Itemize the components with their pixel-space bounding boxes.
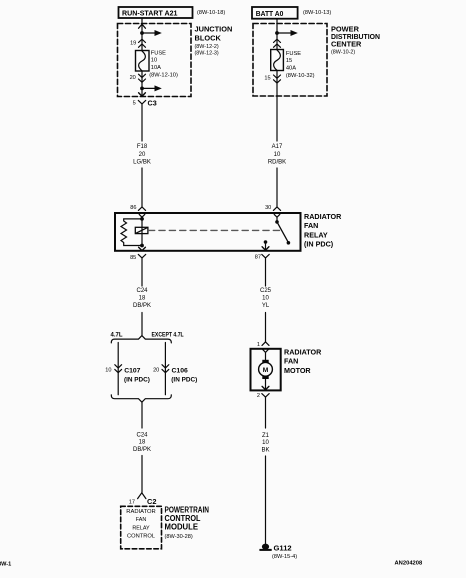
node coil top dot [140, 217, 144, 221]
connector chevrons C107 [115, 365, 122, 373]
connector C3 exit symbol [138, 93, 145, 104]
svg-text:(8W-12-3): (8W-12-3) [195, 51, 219, 57]
switch contact 30 [275, 220, 279, 224]
svg-text:G112: G112 [274, 543, 292, 552]
connector chevrons pin 19 [139, 39, 146, 47]
connector chevrons pin 15 [274, 75, 281, 83]
label RADIATOR FAN RELAY CONTROL (inside PCM) [126, 509, 156, 540]
splice brace top [111, 336, 171, 343]
svg-text:BK: BK [261, 447, 269, 453]
motor exit pin 2 symbol [262, 386, 269, 397]
svg-text:BLOCK: BLOCK [195, 34, 222, 43]
wire label F18 20 LG/BK [133, 144, 151, 166]
svg-text:FAN: FAN [304, 221, 318, 230]
wire label A17 10 RD/BK [268, 144, 286, 166]
svg-text:20: 20 [139, 152, 146, 158]
junction block J1 (dashed box) [118, 24, 192, 97]
connector entry pin 30 [273, 207, 280, 217]
wire to PCM [141, 456, 143, 493]
connector chevrons above PDC fuse [274, 39, 281, 47]
svg-text:RD/BK: RD/BK [268, 160, 286, 166]
ground G112 [259, 544, 271, 551]
svg-text:C3: C3 [148, 99, 157, 108]
svg-text:18: 18 [139, 440, 146, 446]
svg-text:4.7L: 4.7L [111, 333, 123, 339]
wire label Z1 10 BK [261, 433, 269, 453]
wire label C25 10 YL [260, 288, 272, 309]
svg-text:DB/PK: DB/PK [133, 447, 151, 453]
svg-text:MOTOR: MOTOR [284, 366, 311, 375]
label FUSE 15 40A (8W-10-32) [286, 51, 315, 79]
svg-text:8W-1: 8W-1 [0, 562, 11, 568]
pin 85 exit symbol [138, 247, 145, 258]
wire relay 85 down [141, 258, 143, 286]
svg-text:A17: A17 [272, 144, 283, 150]
svg-text:RADIATOR: RADIATOR [284, 347, 322, 356]
svg-text:DB/PK: DB/PK [133, 303, 151, 309]
svg-text:87: 87 [255, 255, 261, 261]
power distribution center (dashed box) [253, 24, 327, 97]
svg-text:(8W-12-10): (8W-12-10) [149, 72, 178, 78]
wire branch left (4.7L) [117, 343, 119, 395]
resistor (relay coil shunt) [121, 219, 142, 246]
svg-text:10: 10 [274, 152, 281, 158]
wire pin 30 stub [276, 217, 278, 222]
svg-text:FAN: FAN [284, 357, 298, 366]
svg-text:40A: 40A [286, 65, 296, 71]
splice brace bottom [111, 395, 171, 402]
connector label C106 (IN PDC) [171, 367, 197, 383]
svg-text:RELAY: RELAY [132, 525, 150, 531]
svg-text:10: 10 [151, 58, 157, 64]
label RADIATOR FAN MOTOR [284, 347, 322, 375]
wire label C24 18 DB/PK [133, 288, 151, 309]
svg-text:10: 10 [105, 368, 111, 374]
svg-text:(8W-15-4): (8W-15-4) [272, 554, 297, 560]
wire down to G112 [265, 456, 267, 545]
wire 87 stub [265, 242, 267, 250]
svg-text:(8W-12-2): (8W-12-2) [195, 44, 219, 50]
wire label C24 18 DB/PK lower [133, 432, 151, 453]
svg-text:FAN: FAN [136, 517, 147, 523]
svg-text:Z1: Z1 [262, 433, 270, 439]
wire to split [141, 313, 143, 336]
svg-text:19: 19 [130, 41, 136, 47]
svg-text:C24: C24 [136, 288, 148, 294]
svg-text:C107: C107 [124, 367, 140, 374]
relay coil box [135, 227, 148, 233]
label POWER DISTRIBUTION CENTER [331, 25, 380, 56]
powertrain control module (dashed box) [121, 506, 162, 549]
wire branch right (EXCEPT 4.7L) [164, 343, 166, 395]
svg-text:CONTROL: CONTROL [127, 534, 155, 540]
relay box (radiator fan relay) [115, 213, 301, 251]
svg-text:LG/BK: LG/BK [133, 160, 151, 166]
svg-text:10A: 10A [151, 65, 161, 71]
svg-text:JUNCTION: JUNCTION [195, 25, 233, 34]
svg-text:(IN PDC): (IN PDC) [304, 240, 334, 249]
arrow feed right (top) [142, 30, 162, 36]
wire RUN-START to junction block [141, 18, 143, 33]
svg-text:1: 1 [257, 342, 260, 348]
motor M1 [259, 352, 273, 389]
svg-text:(8W-10-13): (8W-10-13) [303, 10, 331, 16]
connector chevrons pin 20 [139, 74, 146, 82]
dashed actuator line [149, 229, 281, 231]
svg-text:85: 85 [130, 255, 136, 261]
svg-text:C2: C2 [147, 497, 156, 506]
svg-text:(8W-10-32): (8W-10-32) [286, 73, 315, 79]
fuse F10 (junction block) [136, 51, 150, 72]
svg-text:BATT A0: BATT A0 [256, 9, 283, 18]
svg-text:FUSE: FUSE [151, 51, 166, 57]
connector C2 symbol [138, 493, 146, 499]
wire relay 87 down [265, 258, 267, 286]
svg-text:MODULE: MODULE [165, 523, 199, 532]
wire to relay pin 30 [276, 168, 278, 207]
connector entry motor pin 1 [262, 342, 269, 353]
switch blade [277, 222, 288, 243]
svg-text:FUSE: FUSE [286, 51, 301, 57]
pin 87 exit symbol [262, 247, 269, 258]
wire to motor [265, 313, 267, 342]
svg-text:(8W-10-2): (8W-10-2) [331, 50, 355, 56]
svg-text:RELAY: RELAY [304, 230, 328, 239]
svg-text:YL: YL [262, 303, 270, 309]
switch contact 87 dot [264, 240, 268, 244]
connector chevrons C106 [162, 365, 169, 373]
svg-text:C25: C25 [260, 288, 272, 294]
svg-text:15: 15 [286, 58, 292, 64]
svg-text:(IN PDC): (IN PDC) [171, 377, 197, 384]
label RADIATOR FAN RELAY (IN PDC) [304, 212, 342, 249]
wire dot to fuse [141, 33, 143, 51]
node junction dot PDC [275, 31, 279, 35]
arrow feed right PDC [277, 30, 298, 36]
connector entry at junction block top [139, 24, 146, 28]
svg-text:C106: C106 [172, 367, 188, 374]
svg-text:RUN-START A21: RUN-START A21 [122, 9, 178, 18]
box BATT A0 [252, 7, 298, 19]
svg-text:EXCEPT 4.7L: EXCEPT 4.7L [152, 333, 184, 339]
svg-text:86: 86 [130, 205, 136, 211]
svg-text:5: 5 [133, 101, 136, 107]
wire to relay pin 86 [141, 168, 143, 207]
wire C3 down [141, 104, 143, 141]
svg-text:18: 18 [139, 295, 146, 301]
svg-text:M: M [263, 367, 269, 374]
wire merge down [141, 402, 143, 428]
svg-text:2: 2 [257, 393, 260, 399]
motor box [251, 349, 281, 391]
label JUNCTION BLOCK [195, 25, 233, 57]
svg-text:20: 20 [130, 75, 136, 81]
connector label C107 (IN PDC) [124, 367, 150, 383]
svg-text:RADIATOR: RADIATOR [126, 509, 156, 515]
svg-text:20: 20 [153, 368, 159, 374]
fuse F15 (PDC) [271, 50, 284, 71]
relay coil wire 86 to 85 [141, 217, 143, 245]
svg-text:10: 10 [262, 295, 269, 301]
svg-text:17: 17 [129, 499, 135, 505]
node coil bottom dot [140, 244, 144, 248]
arrow feed right (lower) [142, 85, 162, 91]
svg-text:AN204208: AN204208 [395, 560, 423, 566]
switch contact open end [287, 241, 291, 245]
label FUSE 10 10A (8W-12-10) [149, 51, 178, 79]
svg-text:(8W-30-28): (8W-30-28) [165, 534, 193, 540]
svg-text:C24: C24 [136, 432, 148, 438]
label POWERTRAIN CONTROL MODULE [165, 505, 210, 540]
svg-text:(IN PDC): (IN PDC) [124, 377, 150, 384]
svg-text:RADIATOR: RADIATOR [304, 212, 342, 221]
svg-text:30: 30 [265, 205, 271, 211]
box RUN-START A21 [119, 7, 193, 18]
node junction dot lower [140, 87, 144, 91]
wire PDC fuse down through exit [276, 71, 278, 142]
svg-text:(8W-10-18): (8W-10-18) [197, 10, 225, 16]
svg-text:CENTER: CENTER [331, 40, 362, 49]
wire BATT to PDC fuse [276, 19, 278, 50]
connector entry pin 86 [138, 207, 145, 217]
svg-text:15: 15 [264, 75, 270, 81]
svg-text:10: 10 [262, 440, 269, 446]
wire motor to ground [265, 397, 267, 428]
wire fuse to junction exit [141, 71, 143, 96]
svg-text:F18: F18 [137, 144, 148, 150]
node junction dot [140, 31, 144, 35]
